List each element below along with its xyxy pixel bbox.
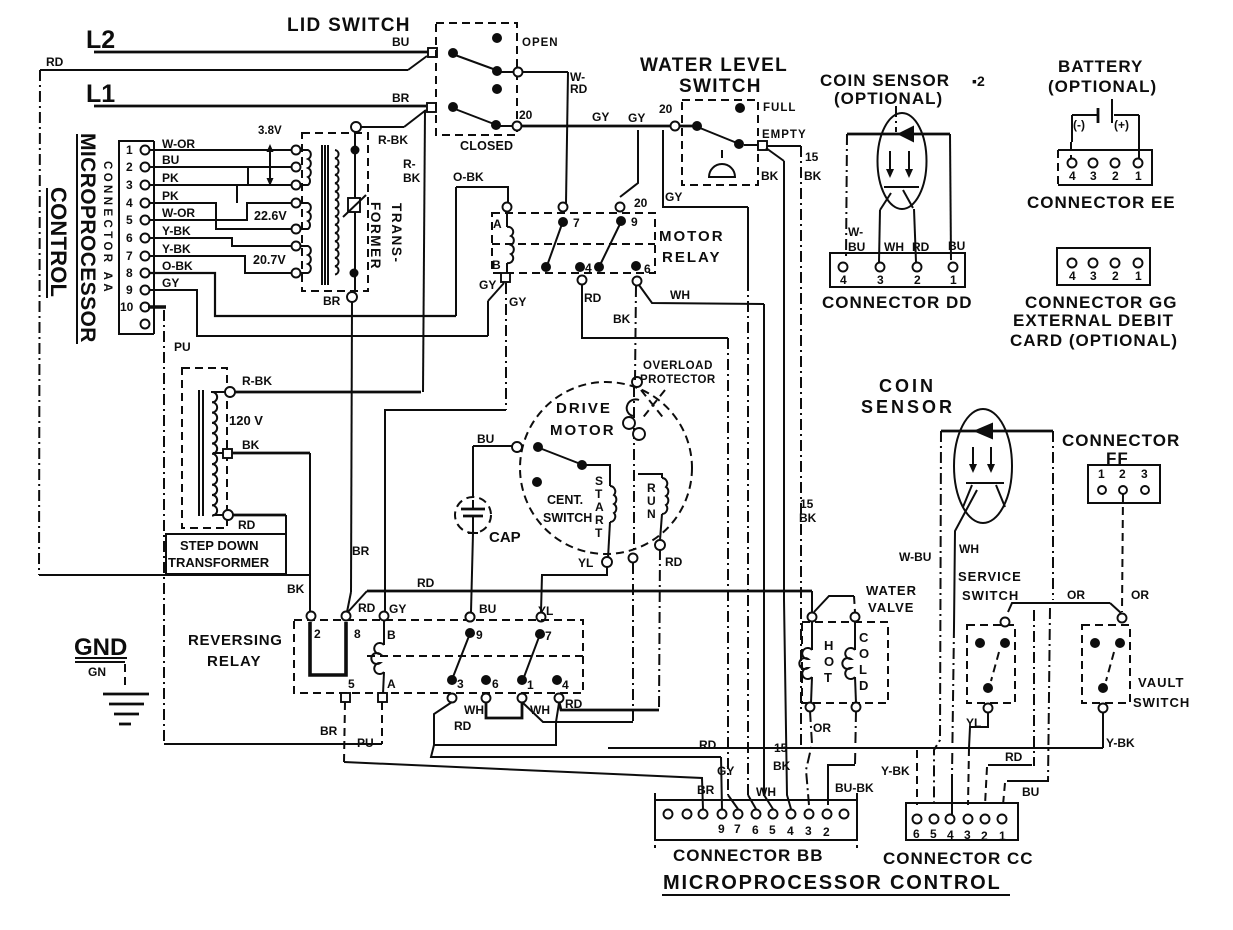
svg-text:BU: BU (1022, 785, 1039, 799)
svg-text:4: 4 (562, 678, 569, 692)
svg-text:4: 4 (840, 273, 847, 287)
svg-text:3.8V: 3.8V (258, 125, 282, 137)
svg-text:CLOSED: CLOSED (460, 139, 513, 153)
svg-text:1: 1 (527, 678, 534, 692)
svg-text:WH: WH (884, 240, 904, 254)
svg-text:A: A (387, 677, 396, 691)
svg-text:3: 3 (1090, 269, 1097, 283)
svg-text:WH: WH (670, 288, 690, 302)
svg-text:10: 10 (120, 300, 134, 314)
svg-text:BU: BU (848, 240, 865, 254)
svg-text:OPEN: OPEN (522, 37, 559, 49)
svg-text:PK: PK (162, 171, 179, 185)
svg-text:Y-BK: Y-BK (881, 764, 910, 778)
svg-text:MOTOR: MOTOR (550, 422, 616, 439)
svg-text:Y-BK: Y-BK (162, 224, 191, 238)
svg-text:YL: YL (578, 556, 593, 570)
svg-text:(-): (-) (1073, 118, 1085, 132)
svg-text:4: 4 (947, 828, 954, 842)
svg-text:22.6V: 22.6V (254, 209, 287, 223)
svg-text:BK: BK (242, 438, 260, 452)
svg-text:STEP DOWN: STEP DOWN (180, 538, 259, 553)
svg-text:H: H (824, 638, 833, 653)
svg-text:TRANSFORMER: TRANSFORMER (168, 555, 270, 570)
svg-text:REVERSING: REVERSING (188, 632, 283, 649)
svg-text:VALVE: VALVE (868, 600, 914, 615)
svg-text:9: 9 (718, 822, 725, 836)
svg-text:RD: RD (46, 55, 64, 69)
svg-text:2: 2 (126, 160, 133, 174)
svg-text:EMPTY: EMPTY (762, 129, 807, 141)
svg-text:OR: OR (813, 721, 831, 735)
svg-text:4: 4 (787, 824, 794, 838)
svg-text:SENSOR: SENSOR (861, 397, 955, 417)
svg-text:4: 4 (126, 196, 133, 210)
svg-text:BK: BK (804, 169, 822, 183)
svg-text:7: 7 (545, 629, 552, 643)
svg-text:2: 2 (1119, 467, 1126, 481)
svg-text:1: 1 (950, 273, 957, 287)
svg-text:OR: OR (1067, 588, 1085, 602)
svg-text:GY: GY (479, 278, 496, 292)
svg-text:GY: GY (665, 190, 682, 204)
svg-text:S: S (595, 474, 603, 488)
svg-text:R: R (647, 481, 656, 495)
svg-text:3: 3 (805, 824, 812, 838)
svg-text:BR: BR (323, 294, 341, 308)
svg-text:GY: GY (162, 276, 179, 290)
svg-text:MICROPROCESSOR CONTROL: MICROPROCESSOR CONTROL (663, 872, 1002, 894)
svg-text:3: 3 (1141, 467, 1148, 481)
svg-text:1: 1 (126, 143, 133, 157)
svg-text:T: T (595, 526, 603, 540)
svg-text:R: R (595, 513, 604, 527)
svg-text:GY: GY (592, 110, 609, 124)
svg-text:120 V: 120 V (229, 413, 263, 428)
svg-text:9: 9 (126, 283, 133, 297)
svg-text:CARD (OPTIONAL): CARD (OPTIONAL) (1010, 331, 1178, 350)
svg-text:(+): (+) (1114, 118, 1129, 132)
svg-text:CONNECTOR CC: CONNECTOR CC (883, 849, 1034, 868)
svg-text:O-BK: O-BK (162, 259, 193, 273)
svg-text:VAULT: VAULT (1138, 675, 1184, 690)
svg-text:GY: GY (509, 295, 526, 309)
svg-text:GY: GY (389, 602, 406, 616)
svg-text:WH: WH (959, 542, 979, 556)
svg-text:W-OR: W-OR (162, 206, 195, 220)
svg-text:2: 2 (981, 829, 988, 843)
svg-text:BU: BU (479, 602, 496, 616)
svg-text:RELAY: RELAY (662, 249, 721, 266)
svg-text:SWITCH: SWITCH (679, 76, 762, 97)
svg-text:(OPTIONAL): (OPTIONAL) (834, 89, 943, 108)
svg-text:7: 7 (573, 216, 580, 230)
svg-text:RD: RD (417, 576, 435, 590)
svg-text:RD: RD (584, 291, 602, 305)
svg-text:BR: BR (392, 91, 410, 105)
svg-text:O-BK: O-BK (453, 170, 484, 184)
svg-text:BU: BU (477, 432, 494, 446)
svg-text:SERVICE: SERVICE (958, 569, 1022, 584)
svg-text:RD: RD (238, 518, 256, 532)
svg-text:WH: WH (464, 703, 484, 717)
svg-text:RELAY: RELAY (207, 653, 261, 670)
svg-text:RD: RD (1005, 750, 1023, 764)
svg-text:CONNECTOR AA: CONNECTOR AA (101, 161, 113, 295)
svg-text:L1: L1 (86, 80, 115, 108)
svg-text:CAP: CAP (489, 529, 521, 546)
svg-text:8: 8 (126, 266, 133, 280)
svg-text:CONNECTOR EE: CONNECTOR EE (1027, 193, 1176, 212)
svg-text:1: 1 (1135, 269, 1142, 283)
svg-text:3: 3 (877, 273, 884, 287)
svg-text:D: D (859, 678, 868, 693)
svg-text:W-OR: W-OR (162, 137, 195, 151)
svg-text:BR: BR (697, 783, 715, 797)
svg-text:FORMER: FORMER (368, 202, 383, 270)
svg-text:5: 5 (930, 827, 937, 841)
svg-text:RD: RD (570, 82, 588, 96)
svg-text:6: 6 (752, 823, 759, 837)
svg-text:BR: BR (320, 724, 338, 738)
svg-text:SWITCH: SWITCH (543, 511, 592, 525)
svg-text:4: 4 (1069, 269, 1076, 283)
svg-text:LID SWITCH: LID SWITCH (287, 15, 411, 36)
svg-text:3: 3 (1090, 169, 1097, 183)
svg-text:BU: BU (162, 153, 179, 167)
svg-text:BATTERY: BATTERY (1058, 57, 1143, 76)
svg-text:L2: L2 (86, 26, 115, 54)
svg-text:MICROPROCESSOR: MICROPROCESSOR (76, 133, 99, 343)
svg-text:SWITCH: SWITCH (962, 588, 1019, 603)
svg-text:RD: RD (358, 601, 376, 615)
svg-text:1: 1 (1098, 467, 1105, 481)
svg-text:9: 9 (476, 628, 483, 642)
svg-text:T: T (824, 670, 832, 685)
svg-text:PROTECTOR: PROTECTOR (640, 374, 716, 386)
svg-text:OR: OR (1131, 588, 1149, 602)
svg-text:1: 1 (1135, 169, 1142, 183)
svg-text:9: 9 (631, 215, 638, 229)
svg-text:DRIVE: DRIVE (556, 400, 612, 417)
svg-text:GY: GY (717, 764, 734, 778)
svg-text:BK: BK (403, 171, 421, 185)
svg-text:R-BK: R-BK (242, 374, 272, 388)
svg-text:WATER: WATER (866, 583, 917, 598)
svg-text:5: 5 (126, 213, 133, 227)
svg-text:Y-BK: Y-BK (1106, 736, 1135, 750)
svg-text:BK: BK (761, 169, 779, 183)
svg-text:4: 4 (1069, 169, 1076, 183)
svg-text:GND: GND (74, 634, 127, 661)
svg-text:6: 6 (492, 677, 499, 691)
svg-text:7: 7 (734, 822, 741, 836)
svg-text:PU: PU (174, 340, 191, 354)
svg-text:U: U (647, 494, 656, 508)
svg-text:T: T (595, 487, 603, 501)
svg-text:RD: RD (665, 555, 683, 569)
svg-text:COIN: COIN (879, 376, 936, 396)
svg-text:3: 3 (964, 828, 971, 842)
svg-text:(OPTIONAL): (OPTIONAL) (1048, 77, 1157, 96)
svg-text:WH: WH (530, 703, 550, 717)
svg-text:EXTERNAL DEBIT: EXTERNAL DEBIT (1013, 311, 1174, 330)
svg-text:R-: R- (403, 157, 416, 171)
svg-text:BU: BU (392, 35, 409, 49)
svg-text:CENT.: CENT. (547, 493, 583, 507)
svg-text:A: A (595, 500, 604, 514)
svg-text:20: 20 (634, 196, 648, 210)
svg-text:CONNECTOR GG: CONNECTOR GG (1025, 293, 1177, 312)
svg-text:B: B (492, 258, 501, 272)
svg-text:5: 5 (348, 677, 355, 691)
svg-text:2: 2 (1112, 169, 1119, 183)
svg-text:7: 7 (126, 249, 133, 263)
svg-text:5: 5 (769, 823, 776, 837)
svg-text:1: 1 (999, 829, 1006, 843)
svg-text:20.7V: 20.7V (253, 253, 286, 267)
svg-text:A: A (493, 217, 502, 231)
svg-text:GY: GY (628, 111, 645, 125)
svg-text:CONNECTOR BB: CONNECTOR BB (673, 846, 824, 865)
svg-text:GN: GN (88, 665, 106, 679)
svg-text:C: C (859, 630, 869, 645)
svg-text:6: 6 (913, 827, 920, 841)
svg-text:3: 3 (126, 178, 133, 192)
svg-text:W-BU: W-BU (899, 550, 931, 564)
svg-text:BR: BR (352, 544, 370, 558)
svg-text:BK: BK (773, 759, 791, 773)
svg-text:TRANS-: TRANS- (389, 203, 404, 264)
svg-text:RD: RD (454, 719, 472, 733)
svg-text:Y-BK: Y-BK (162, 242, 191, 256)
svg-text:W-: W- (848, 225, 863, 239)
svg-text:RD: RD (699, 738, 717, 752)
svg-text:OVERLOAD: OVERLOAD (643, 360, 713, 372)
svg-text:WATER LEVEL: WATER LEVEL (640, 55, 788, 76)
svg-text:15: 15 (805, 150, 819, 164)
svg-text:2: 2 (1112, 269, 1119, 283)
svg-text:PK: PK (162, 189, 179, 203)
svg-text:COIN SENSOR: COIN SENSOR (820, 71, 950, 90)
svg-text:2: 2 (314, 627, 321, 641)
svg-text:CONNECTOR DD: CONNECTOR DD (822, 293, 973, 312)
svg-text:O: O (859, 646, 869, 661)
svg-text:BK: BK (287, 582, 305, 596)
svg-text:N: N (647, 507, 656, 521)
svg-text:20: 20 (659, 102, 673, 116)
svg-text:6: 6 (126, 231, 133, 245)
svg-text:CONNECTOR: CONNECTOR (1062, 431, 1180, 450)
svg-text:8: 8 (354, 627, 361, 641)
svg-text:BU-BK: BU-BK (835, 781, 874, 795)
svg-text:2: 2 (823, 825, 830, 839)
svg-text:15: 15 (800, 497, 814, 511)
svg-text:MOTOR: MOTOR (659, 228, 725, 245)
svg-text:3: 3 (457, 677, 464, 691)
svg-text:B: B (387, 628, 396, 642)
svg-text:R-BK: R-BK (378, 133, 408, 147)
svg-text:L: L (859, 662, 867, 677)
svg-text:SWITCH: SWITCH (1133, 695, 1190, 710)
svg-text:FULL: FULL (763, 102, 796, 114)
svg-text:20: 20 (519, 108, 533, 122)
svg-text:CONTROL: CONTROL (46, 187, 71, 297)
svg-text:2: 2 (914, 273, 921, 287)
svg-text:▪2: ▪2 (972, 73, 985, 89)
svg-text:BK: BK (613, 312, 631, 326)
svg-text:O: O (824, 654, 834, 669)
